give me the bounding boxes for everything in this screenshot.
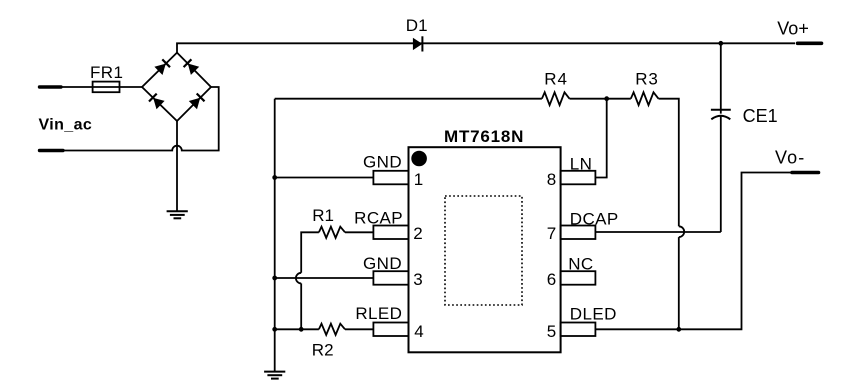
svg-text:Vo+: Vo+ <box>777 18 809 38</box>
svg-text:LN: LN <box>570 155 593 174</box>
pin 6 box NC <box>561 271 596 285</box>
resistor R1 <box>319 227 345 238</box>
svg-text:CE1: CE1 <box>743 106 778 126</box>
ground (bridge) <box>167 211 188 218</box>
resistor R2 <box>319 324 345 335</box>
bridge diode bottom-right <box>189 94 205 110</box>
resistor R3 <box>631 92 659 105</box>
svg-text:2: 2 <box>413 224 422 243</box>
svg-text:GND: GND <box>363 152 402 171</box>
junction R4/R3/LN <box>605 97 609 101</box>
wire pin3 GND to line A <box>275 277 374 279</box>
wire hop over DCAP wire <box>679 226 684 237</box>
pin 4 box RLED <box>373 323 408 337</box>
junction top rail / CE1 <box>719 41 723 45</box>
svg-text:D1: D1 <box>406 16 428 35</box>
dotted inner outline <box>445 196 522 305</box>
wire pin2 RCAP to R1 <box>345 231 373 233</box>
capacitor CE1 <box>711 43 731 232</box>
svg-text:5: 5 <box>547 322 556 341</box>
svg-text:FR1: FR1 <box>90 63 123 82</box>
wire R4 to junction <box>570 98 631 100</box>
input terminal top <box>40 85 62 88</box>
svg-text:Vo-: Vo- <box>775 147 805 167</box>
svg-text:1: 1 <box>414 170 423 189</box>
svg-text:R3: R3 <box>635 69 659 88</box>
pin 8 box LN <box>561 171 596 185</box>
junction line B / pin4 <box>299 327 303 331</box>
bridge diode top-left <box>154 59 170 75</box>
pin 5 box DLED <box>561 323 596 337</box>
IC U1 MT7618N <box>409 147 561 352</box>
wire R3 to DLED riser <box>659 99 679 227</box>
junction line A / pin4 <box>273 327 277 331</box>
svg-text:7: 7 <box>547 224 556 243</box>
ground (line A) <box>264 372 285 379</box>
junction line A / pin1 <box>273 176 277 180</box>
pin 1 box GND <box>373 171 408 185</box>
svg-text:3: 3 <box>413 270 422 289</box>
svg-text:R2: R2 <box>312 341 334 360</box>
svg-text:RCAP: RCAP <box>354 208 403 227</box>
wire riser to DLED row <box>678 237 680 329</box>
svg-text:GND: GND <box>363 254 402 273</box>
wire bridge bottom to ground <box>176 121 178 211</box>
pin 2 box RCAP <box>373 226 408 240</box>
wire R2 to pin4 <box>345 328 373 330</box>
svg-text:Vin_ac: Vin_ac <box>39 117 93 134</box>
junction DLED / riser <box>677 327 681 331</box>
svg-text:8: 8 <box>547 170 556 189</box>
diode D1 <box>413 36 423 51</box>
input terminal bottom <box>40 149 64 152</box>
wire line B hop over GND wire <box>296 273 301 284</box>
svg-text:R1: R1 <box>312 206 334 225</box>
pin 3 box GND <box>373 271 408 285</box>
fuse FR1 <box>93 82 120 93</box>
junction line A / pin3 <box>273 276 277 280</box>
svg-text:MT7618N: MT7618N <box>444 127 524 146</box>
pin 1 marker dot <box>411 151 427 167</box>
output terminal Vo- <box>792 171 819 175</box>
wire R1 to line B <box>301 232 319 272</box>
wire line A (left vertical bus) <box>274 99 276 372</box>
svg-text:RLED: RLED <box>355 304 402 323</box>
bridge diode bottom-left <box>149 94 165 110</box>
wire input top to bridge <box>61 86 142 88</box>
bridge diode top-right <box>184 59 200 75</box>
output terminal Vo+ <box>798 41 822 45</box>
wire pin1 GND to line A <box>275 177 374 179</box>
wire R4 feed rail <box>275 98 542 100</box>
wire top rail to Vo+ <box>177 43 795 52</box>
svg-text:4: 4 <box>414 322 423 341</box>
wire line B lower <box>300 283 302 329</box>
svg-text:R4: R4 <box>544 69 568 88</box>
svg-text:DCAP: DCAP <box>570 210 619 229</box>
svg-text:DLED: DLED <box>570 304 617 323</box>
resistor R4 <box>542 92 570 105</box>
svg-text:NC: NC <box>568 255 593 274</box>
wire pin4 RLED row <box>275 328 319 330</box>
wire DLED to Vo- <box>595 173 791 330</box>
wire DCAP to CE1 <box>595 231 720 233</box>
svg-text:6: 6 <box>547 270 556 289</box>
pin 7 box DCAP <box>561 226 596 240</box>
wire input bottom to bridge right (hop over ground wire) <box>63 87 219 151</box>
wire LN riser <box>595 99 606 178</box>
bridge rectifier diamond <box>142 53 211 121</box>
